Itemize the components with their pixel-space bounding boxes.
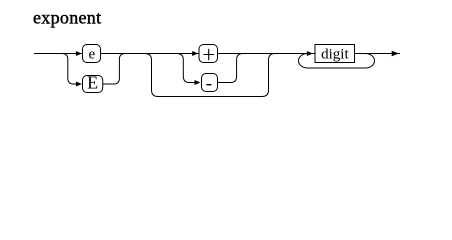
terminal E box [83,76,103,93]
svg-text:e: e [88,47,95,63]
arrow into terminal e [76,52,81,56]
branch wire down to minus alternative [177,54,195,83]
repeat loop arc right of digit [366,54,375,69]
svg-text:exponent: exponent [33,8,101,28]
terminal minus glyph [206,84,211,85]
arrow into nonterminal digit [307,52,312,56]
terminal e box [83,45,101,63]
end arrow of diagram [392,51,398,55]
merge wire from minus alternative up to main [218,54,243,83]
arrow into terminal minus [195,81,200,85]
arrow into terminal plus [193,52,198,56]
main wire [34,53,400,55]
svg-text:digit: digit [321,46,349,62]
merge wire from E alternative up to main [103,54,125,85]
nonterminal digit box [315,45,355,63]
repeat loop arc left of digit [299,54,308,69]
terminal plus box [199,45,218,63]
arrow into terminal E [76,82,81,86]
branch wire down to E alternative [62,54,76,85]
repeat loop bottom wire [308,67,366,69]
bypass wire (skip sign) down and around [145,54,275,97]
svg-text:E: E [87,73,98,93]
terminal plus glyph [204,49,215,60]
terminal minus box [202,74,218,92]
